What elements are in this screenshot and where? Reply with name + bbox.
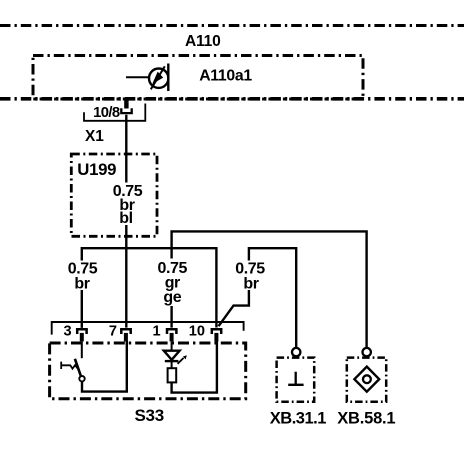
box XB.58.1	[347, 358, 386, 402]
LED in S33 (pin 1 side)	[164, 341, 187, 368]
wire resistor to pin 10	[172, 341, 217, 393]
terminal point circle XB.31.1	[292, 348, 300, 356]
box S33	[50, 343, 246, 399]
svg-text:br: br	[74, 276, 89, 293]
box A110 (outer unit) bottom edge	[0, 97, 464, 101]
connector X1 10/8 female socket	[121, 108, 131, 113]
switch actuator linkage	[61, 362, 77, 369]
terminal point circle XB.58.1	[363, 348, 371, 356]
wire A110a1 pin 10/8 to S33 pin 7 (0.75 br/bl)	[125, 115, 127, 328]
svg-text:S33: S33	[135, 406, 164, 425]
svg-text:X1: X1	[85, 128, 104, 145]
svg-text:7: 7	[109, 324, 117, 340]
connector strip on S33	[52, 322, 244, 335]
connector X1 10/8 male pin stub	[124, 101, 128, 109]
svg-text:U199: U199	[77, 160, 116, 179]
svg-text:br: br	[243, 276, 258, 293]
box U199 (connector sleeve)	[71, 154, 157, 236]
svg-text:10: 10	[189, 324, 205, 340]
svg-text:XB.31.1: XB.31.1	[270, 410, 326, 428]
pin 7 connector	[121, 329, 130, 341]
wire label 0.75 br (ground wire)	[235, 261, 265, 293]
box A110a1	[33, 56, 363, 100]
svg-text:1: 1	[152, 324, 160, 340]
wire S33 pin 3 to S33 pin 10 (0.75 br)	[82, 248, 217, 328]
connector block X1 bracket	[84, 104, 145, 121]
svg-text:3: 3	[63, 324, 71, 340]
pin 1 connector	[167, 329, 176, 341]
svg-text:ge: ge	[163, 289, 181, 306]
wire label 0.75 br (pin 3)	[68, 261, 98, 293]
svg-text:A110a1: A110a1	[199, 68, 252, 85]
wire label 0.75 br bl	[113, 183, 143, 228]
wire label 0.75 gr ge	[158, 259, 188, 307]
svg-text:bl: bl	[119, 210, 132, 227]
resistor in S33	[168, 368, 177, 382]
ground symbol in XB.31.1	[288, 372, 303, 385]
svg-text:XB.58.1: XB.58.1	[337, 410, 395, 428]
switch contact in S33 (pin 3 side)	[75, 341, 127, 392]
wire XB.31.1 to S33 pin 10 (0.75 br)	[219, 248, 297, 347]
illumination symbol inner circle	[363, 375, 371, 383]
box XB.31.1	[277, 358, 315, 402]
symbol A110a1 (amplifier/microphone)	[126, 64, 168, 92]
svg-text:10/8: 10/8	[93, 105, 120, 121]
pin 10 connector	[212, 329, 221, 341]
illumination symbol in XB.58.1 (diamond)	[354, 367, 379, 392]
wire S33 pin 1 to XB.58.1 (0.75 gr/ge)	[172, 231, 367, 347]
svg-text:A110: A110	[185, 33, 221, 50]
pin 3 connector	[77, 329, 86, 341]
box A110 (outer unit) top edge	[0, 24, 464, 27]
